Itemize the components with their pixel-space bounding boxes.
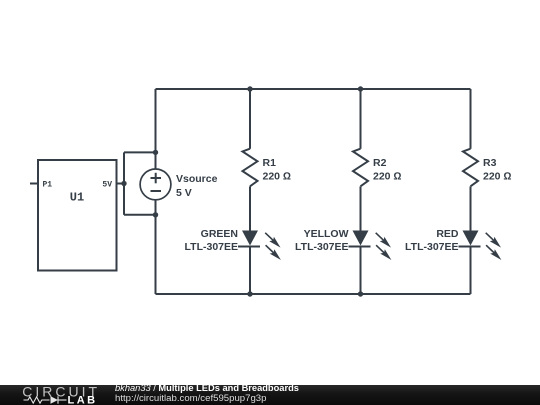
svg-text:Vsource: Vsource bbox=[176, 173, 218, 185]
svg-text:LAB: LAB bbox=[68, 395, 98, 405]
svg-text:LTL-307EE: LTL-307EE bbox=[295, 241, 348, 253]
svg-text:5 V: 5 V bbox=[176, 187, 192, 199]
svg-text:LTL-307EE: LTL-307EE bbox=[405, 241, 458, 253]
svg-text:220 Ω: 220 Ω bbox=[483, 171, 512, 183]
svg-text:P1: P1 bbox=[43, 181, 53, 190]
svg-text:220 Ω: 220 Ω bbox=[373, 171, 402, 183]
svg-text:R2: R2 bbox=[373, 157, 387, 169]
svg-text:220 Ω: 220 Ω bbox=[263, 171, 292, 183]
svg-text:R1: R1 bbox=[263, 157, 277, 169]
svg-text:U1: U1 bbox=[70, 191, 84, 205]
svg-text:5V: 5V bbox=[102, 181, 112, 190]
svg-text:YELLOW: YELLOW bbox=[304, 228, 349, 240]
svg-text:GREEN: GREEN bbox=[201, 228, 238, 240]
svg-text:R3: R3 bbox=[483, 157, 497, 169]
svg-text:LTL-307EE: LTL-307EE bbox=[185, 241, 238, 253]
svg-text:RED: RED bbox=[436, 228, 459, 240]
